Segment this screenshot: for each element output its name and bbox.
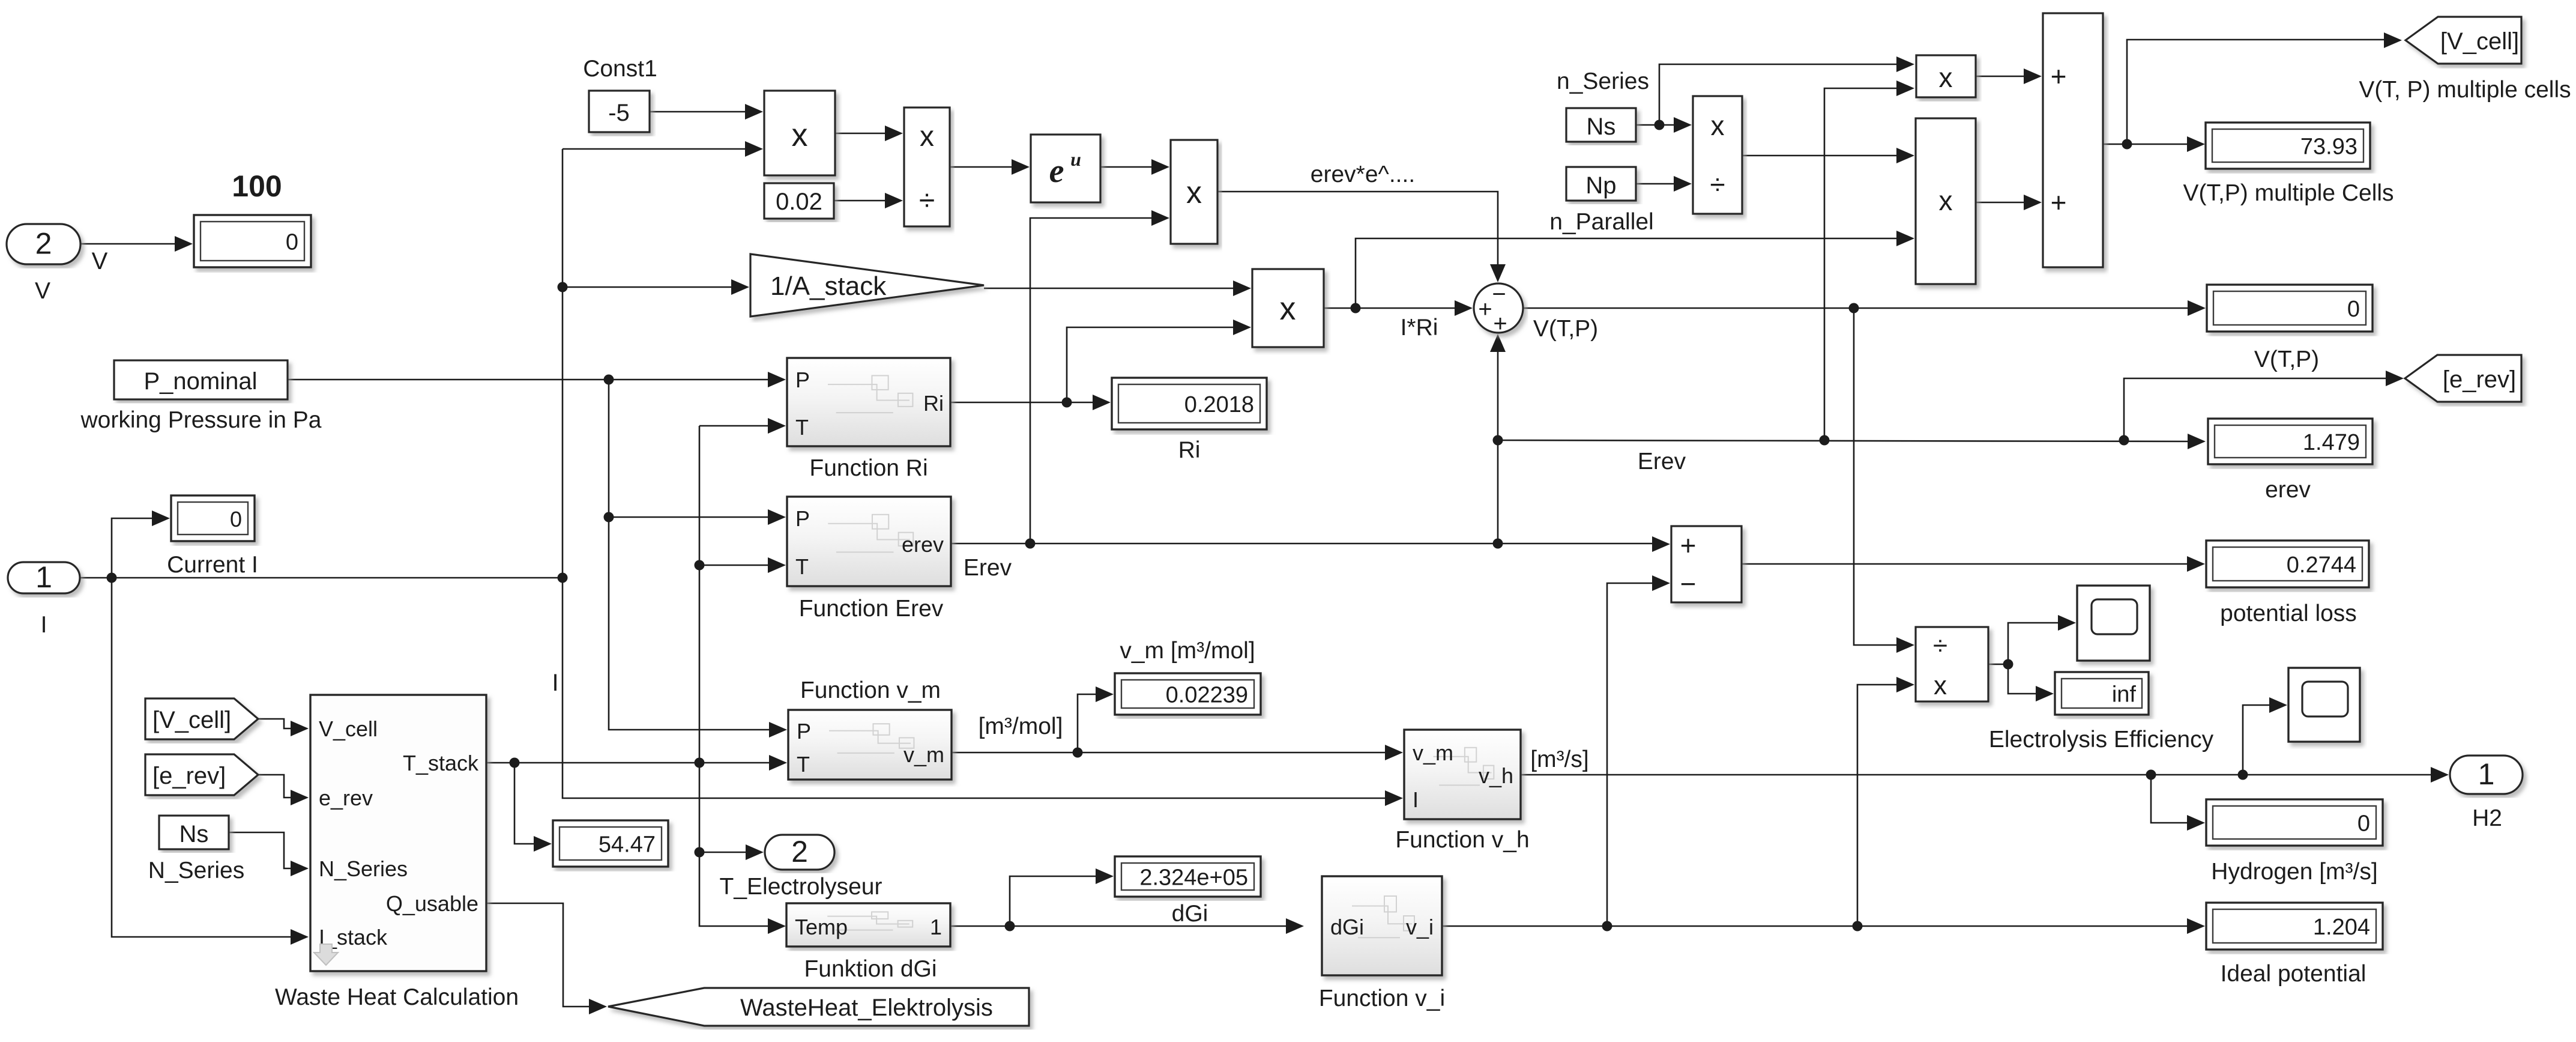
signal label m3/s	[1530, 747, 1588, 772]
arrowhead into product3x small lower input	[1896, 80, 1914, 96]
display potential loss 0.2744	[2206, 541, 2369, 587]
signal label m3/mol	[979, 713, 1063, 739]
wire H2 branch down to display	[2151, 775, 2188, 823]
subtract block	[1671, 526, 1742, 602]
subsystem Function v_h	[1404, 730, 1521, 819]
svg-text:0: 0	[286, 230, 298, 255]
arrowhead into sum2 upper input	[2024, 68, 2042, 84]
wire divide to exp	[950, 166, 1013, 168]
wire H2 branch up to scope	[2243, 705, 2270, 775]
arrowhead into WasteHeat goto	[589, 999, 607, 1014]
svg-text:x: x	[792, 117, 808, 153]
label H2	[2472, 805, 2502, 831]
wire dGi out	[950, 925, 1287, 927]
signal label I	[552, 670, 558, 696]
arrowhead into I_stack port	[291, 929, 309, 945]
svg-text:Function v_h: Function v_h	[1395, 827, 1529, 853]
svg-text:Current I: Current I	[167, 552, 258, 578]
wire Erev out	[951, 543, 1653, 545]
wire I*Ri to sum	[1324, 307, 1456, 309]
wire ratio out	[1742, 155, 1898, 157]
svg-text:Ns: Ns	[1587, 114, 1616, 140]
wire v_h out H2	[1521, 774, 2432, 776]
wire T_stack out	[484, 762, 769, 764]
svg-text:Function Erev: Function Erev	[799, 596, 944, 622]
display V(T,P)	[2207, 285, 2372, 332]
label Current I	[167, 552, 258, 578]
svg-text:P: P	[795, 368, 810, 392]
junction I gain branch	[558, 282, 568, 292]
arrowhead into divide div input	[885, 193, 903, 208]
junction I*Ri out	[1351, 303, 1361, 314]
label V under inport	[35, 278, 50, 304]
arrowhead into erev display	[2188, 434, 2206, 449]
svg-text:v_h: v_h	[1479, 763, 1513, 788]
svg-text:N_Series: N_Series	[319, 856, 408, 881]
arrowhead into T_Electrolyseur outport	[746, 844, 764, 860]
signal label V(T,P)	[1533, 316, 1598, 342]
junction sum2 out	[2122, 139, 2132, 150]
arrowhead into divide x input	[885, 126, 903, 141]
label V(T,P) display	[2254, 347, 2319, 372]
svg-text:−: −	[1492, 281, 1506, 307]
svg-text:0: 0	[2357, 811, 2370, 837]
svg-text:0.02: 0.02	[776, 189, 822, 215]
wire Ri out	[950, 402, 1094, 404]
scope2 hydrogen	[2288, 668, 2360, 742]
arrowhead into Funktion dGi Temp	[768, 918, 786, 934]
junction Erev smallx branch	[1820, 435, 1830, 446]
wire Erev branch to e_rev goto	[2124, 378, 2387, 440]
svg-text:1.204: 1.204	[2313, 915, 2370, 940]
const Ns	[1566, 108, 1636, 142]
wire v_m branch to display	[1078, 694, 1097, 753]
svg-text:0.2744: 0.2744	[2287, 553, 2356, 578]
wire potential loss	[1742, 563, 2188, 565]
svg-text:V(T,P) multiple Cells: V(T,P) multiple Cells	[2183, 180, 2394, 206]
svg-text:u: u	[1070, 148, 1081, 170]
arrowhead into e_rev goto	[2386, 371, 2404, 386]
signal label Erev near block	[964, 555, 1012, 581]
svg-text:dGi: dGi	[1330, 915, 1364, 939]
const Const1 -5	[589, 91, 650, 132]
svg-text:T_Electrolyseur: T_Electrolyseur	[720, 874, 882, 900]
label V(T,P) multiple Cells	[2183, 180, 2394, 206]
svg-text:P: P	[797, 719, 811, 744]
svg-text:[V_cell]: [V_cell]	[152, 707, 231, 733]
outport 1 H2	[2450, 756, 2523, 794]
label n_Series	[1557, 68, 1649, 94]
arrowhead into e^u	[1012, 159, 1030, 175]
block P_nominal	[114, 360, 288, 399]
display block 100 value	[194, 215, 311, 267]
gain 1/A_stack	[750, 254, 984, 317]
svg-text:2: 2	[791, 835, 808, 868]
label working Pressure in Pa	[80, 407, 321, 433]
svg-text:[e_rev]: [e_rev]	[2443, 366, 2516, 393]
svg-text:0: 0	[230, 507, 242, 532]
wire 0.02 to divide	[834, 200, 886, 202]
svg-text:1: 1	[930, 915, 942, 939]
svg-text:V(T, P) multiple cells: V(T, P) multiple cells	[2359, 77, 2571, 103]
arrowhead into Current I display	[152, 510, 170, 526]
goto WasteHeat_Elektrolysis	[608, 988, 1029, 1026]
block e^u exponential	[1031, 135, 1100, 202]
svg-text:Function Ri: Function Ri	[809, 455, 928, 481]
subsystem Function v_i	[1322, 876, 1442, 975]
svg-text:[m³/s]: [m³/s]	[1530, 747, 1588, 772]
svg-text:e: e	[1049, 153, 1064, 190]
svg-text:[V_cell]: [V_cell]	[2440, 28, 2519, 55]
label N_Series	[148, 858, 244, 883]
product X const1*I	[764, 91, 835, 175]
svg-text:Electrolysis Efficiency: Electrolysis Efficiency	[1989, 727, 2214, 753]
arrowhead into product X lower input	[745, 141, 763, 157]
wire Ns to N_Series port	[229, 832, 292, 868]
arrowhead into Function v_h I port	[1385, 790, 1403, 806]
svg-text:Ideal potential: Ideal potential	[2221, 961, 2366, 987]
wire I to product top branch	[563, 148, 746, 150]
svg-text:100: 100	[232, 169, 282, 203]
arrowhead into Function v_i	[1286, 918, 1304, 934]
label Funktion dGi	[804, 956, 937, 982]
label Waste Heat Calculation	[275, 984, 519, 1010]
junction dGi	[1005, 921, 1015, 931]
wire V_cell from-tag	[258, 719, 292, 728]
svg-text:x: x	[920, 121, 934, 153]
wire Np out	[1636, 183, 1675, 185]
svg-text:Temp: Temp	[795, 915, 848, 939]
label Hydrogen m3/s	[2211, 859, 2377, 885]
arrowhead into ratio div input	[1674, 176, 1692, 192]
svg-text:0: 0	[2347, 297, 2360, 322]
svg-text:v_m [m³/mol]: v_m [m³/mol]	[1120, 638, 1255, 664]
svg-text:v_m: v_m	[903, 742, 944, 767]
junction T outport branch	[695, 847, 705, 858]
label Function v_m	[800, 677, 941, 703]
wire T to outport 2	[699, 852, 747, 853]
label Function v_h	[1395, 827, 1529, 853]
junction v_i efficiency branch	[1853, 921, 1863, 931]
svg-text:erev: erev	[2265, 477, 2311, 503]
wire v_m out	[952, 752, 1386, 754]
wire v_i branch to efficiency x	[1857, 685, 1898, 926]
const Np	[1566, 167, 1636, 201]
wire I vertical trunk	[563, 149, 1386, 798]
wire I branch to gain	[563, 286, 732, 288]
arrowhead into H2 outport	[2431, 767, 2449, 783]
wire erev branch up to product2	[1030, 218, 1153, 544]
display 54.47	[553, 820, 668, 867]
svg-text:erev*e^....: erev*e^....	[1311, 162, 1415, 187]
wire P branch to Function Erev P	[609, 516, 769, 518]
display v_m 0.02239	[1115, 673, 1261, 715]
display inf	[2055, 672, 2149, 715]
svg-text:[e_rev]: [e_rev]	[152, 763, 226, 789]
arrowhead into sum bottom	[1490, 334, 1506, 352]
svg-text:I: I	[41, 612, 47, 638]
svg-text:n_Series: n_Series	[1557, 68, 1649, 94]
svg-text:x: x	[1280, 291, 1296, 327]
svg-text:÷: ÷	[1710, 169, 1725, 200]
annotation 100	[232, 169, 282, 203]
arrowhead into Function Erev P	[768, 509, 786, 525]
junction V(T,P)	[1849, 303, 1859, 314]
arrowhead into Function Ri P	[768, 372, 786, 387]
svg-text:v_m: v_m	[1413, 741, 1453, 765]
svg-text:+: +	[2051, 61, 2067, 92]
arrowhead into sum2 lower input	[2024, 195, 2042, 210]
svg-text:Ri: Ri	[1178, 437, 1201, 463]
wire P vertical branch	[609, 380, 769, 730]
junction P Erev branch	[604, 512, 614, 523]
junction T Erev branch	[695, 560, 705, 571]
svg-text:Np: Np	[1585, 172, 1616, 199]
svg-text:Erev: Erev	[1638, 449, 1686, 474]
label T_Electrolyseur	[720, 874, 882, 900]
svg-text:x: x	[1939, 185, 1953, 216]
junction T at x1165	[695, 758, 705, 768]
svg-text:0.02239: 0.02239	[1166, 683, 1248, 708]
svg-text:÷: ÷	[1933, 631, 1947, 661]
product tall	[1916, 118, 1976, 284]
arrowhead into 0.2744 display	[2187, 556, 2205, 572]
arrowhead into Ri display	[1093, 395, 1111, 410]
arrowhead into V(T,P) display	[2188, 300, 2206, 316]
arrowhead into ratio x input	[1674, 117, 1692, 133]
svg-text:n_Parallel: n_Parallel	[1549, 209, 1653, 235]
junction v_m	[1073, 748, 1083, 758]
wire sum2 out	[2103, 144, 2188, 145]
arrowhead into product I*Ri upper input	[1233, 280, 1251, 296]
svg-text:V(T,P): V(T,P)	[2254, 347, 2319, 372]
arrowhead into subtract minus input	[1652, 575, 1670, 591]
junction P at x1014	[604, 375, 614, 385]
wire Q_usable to goto	[484, 903, 590, 1007]
arrowhead into e_rev port	[291, 790, 309, 805]
arrowhead into 73.93 display	[2187, 136, 2205, 152]
svg-text:Q_usable: Q_usable	[386, 891, 478, 916]
svg-text:Ri: Ri	[923, 391, 944, 416]
goto e_rev	[2405, 355, 2521, 402]
svg-text:2: 2	[35, 227, 52, 261]
wire efficiency branch to scope	[2008, 623, 2059, 664]
wire tall product out	[1976, 202, 2025, 204]
wire Erev branch up to product3 top	[1824, 88, 1898, 440]
subsystem badge arrow	[314, 944, 338, 965]
arrowhead into inf display	[2036, 686, 2054, 701]
svg-text:potential loss: potential loss	[2220, 601, 2357, 626]
product X2 erev*exp	[1171, 140, 1217, 244]
svg-text:Hydrogen [m³/s]: Hydrogen [m³/s]	[2211, 859, 2377, 885]
wire erev*e to sum top	[1217, 192, 1498, 265]
svg-text:1/A_stack: 1/A_stack	[770, 271, 887, 301]
wire Erev vertical to sum bottom	[1497, 351, 1499, 544]
svg-text:−: −	[1680, 568, 1697, 599]
junction Ri out	[1062, 398, 1072, 408]
efficiency divide block	[1916, 627, 1988, 701]
from tag e_rev	[145, 754, 258, 795]
wire I from inport 1	[80, 577, 563, 579]
inport 2 V	[7, 224, 80, 264]
wire I*Ri branch up to product3	[1356, 238, 1898, 308]
arrowhead into efficiency divide input	[1896, 637, 1914, 653]
arrowhead into V_cell port	[291, 721, 309, 736]
svg-text:+: +	[1493, 310, 1507, 337]
svg-text:e_rev: e_rev	[319, 786, 373, 810]
svg-text:Function v_m: Function v_m	[800, 677, 941, 703]
arrowhead into Function v_m T	[769, 755, 787, 771]
svg-text:x: x	[1711, 110, 1725, 141]
junction H2 display branch	[2146, 770, 2156, 780]
wire V inport to display	[80, 243, 178, 245]
outport 2 T_Electrolyseur	[765, 835, 834, 870]
svg-text:inf: inf	[2112, 682, 2137, 707]
svg-text:0.2018: 0.2018	[1184, 392, 1254, 417]
svg-text:1: 1	[35, 560, 52, 594]
arrowhead into subtract plus input	[1652, 536, 1670, 552]
svg-text:v_i: v_i	[1406, 915, 1434, 939]
wire T to Function Ri T	[699, 425, 769, 427]
svg-text:+: +	[2051, 187, 2067, 218]
label V(T,P) multiple cells goto	[2359, 77, 2571, 103]
arrowhead into product3 lower input	[1896, 231, 1914, 246]
arrowhead into product3 upper input	[1896, 148, 1914, 163]
svg-text:I*Ri: I*Ri	[1401, 315, 1438, 341]
wire small product out	[1976, 76, 2025, 77]
label Function Erev	[799, 596, 944, 622]
display dGi 2.324e+05	[1115, 856, 1261, 897]
sum circle V(T,P)	[1474, 281, 1523, 337]
sum2 block	[2043, 13, 2103, 267]
label Ideal potential	[2221, 961, 2366, 987]
junction v_i subtract branch	[1602, 921, 1612, 931]
label Ri under display	[1178, 437, 1201, 463]
svg-text:x: x	[1186, 175, 1202, 210]
svg-text:[m³/mol]: [m³/mol]	[979, 713, 1063, 739]
display erev 1.479	[2208, 419, 2372, 464]
wire v_i branch to subtract minus	[1607, 583, 1653, 926]
wire sum2 branch to V_cell goto	[2127, 40, 2385, 144]
from tag V_cell	[145, 698, 258, 739]
arrowhead into product I*Ri lower input	[1233, 320, 1251, 335]
product small Ns*erev	[1916, 55, 1976, 97]
junction efficiency out	[2003, 659, 2013, 670]
signal label erev*e	[1311, 162, 1415, 187]
goto V_cell	[2406, 17, 2521, 64]
label Const1	[583, 56, 657, 82]
subsystem Function Ri	[787, 358, 950, 446]
arrowhead into efficiency x input	[1896, 677, 1914, 692]
svg-text:T_stack: T_stack	[403, 751, 479, 775]
display Ideal potential 1.204	[2206, 903, 2383, 950]
svg-text:Waste Heat Calculation: Waste Heat Calculation	[275, 984, 519, 1010]
svg-text:working Pressure in Pa: working Pressure in Pa	[80, 407, 321, 433]
svg-text:+: +	[1680, 530, 1697, 561]
svg-text:x: x	[1934, 671, 1947, 700]
arrowhead into 54.47 display	[534, 836, 552, 852]
wire Ns branch up	[1659, 64, 1898, 125]
wire I branch down to I_stack	[112, 578, 292, 937]
svg-text:1.479: 1.479	[2303, 430, 2360, 455]
junction Erev upper	[1493, 435, 1503, 446]
wire T branch down to 54.47 display	[514, 763, 535, 844]
junction I at x937	[558, 573, 568, 583]
wire T vertical trunk	[699, 426, 769, 926]
wire Const1 -5 to product	[650, 111, 746, 113]
divide Ns/Np	[1693, 96, 1742, 214]
wire Ri branch to product I*Ri	[1067, 327, 1234, 402]
junction Erev goto branch	[2119, 435, 2129, 446]
scope1 Electrolysis Efficiency	[2077, 586, 2150, 661]
svg-text:-5: -5	[608, 100, 630, 126]
svg-text:73.93: 73.93	[2300, 135, 2357, 160]
signal label Erev mid	[1638, 449, 1686, 474]
inport 1 I	[8, 560, 80, 594]
svg-text:T: T	[795, 415, 809, 440]
arrowhead into 2.324e+05 display	[1096, 868, 1114, 884]
wire efficiency out	[1988, 664, 2008, 665]
label I under inport	[41, 612, 47, 638]
wire T to Function Erev T	[699, 565, 769, 566]
arrowhead into sum top	[1490, 264, 1506, 282]
label Function Ri	[809, 455, 928, 481]
subsystem Funktion dGi	[786, 903, 950, 947]
svg-text:Funktion dGi: Funktion dGi	[804, 956, 937, 982]
arrowhead into gain 1/A_stack	[731, 279, 749, 295]
subsystem Function Erev	[787, 497, 951, 586]
display Current I	[171, 495, 255, 541]
display Ri 0.2018	[1112, 378, 1267, 429]
display Hydrogen	[2206, 799, 2383, 846]
svg-text:÷: ÷	[919, 185, 935, 217]
arrowhead into product2 lower input	[1151, 210, 1169, 226]
junction Erev out	[1025, 539, 1036, 549]
svg-text:T: T	[795, 554, 809, 579]
svg-text:T: T	[797, 752, 810, 777]
svg-text:Ns: Ns	[179, 821, 209, 847]
arrowhead into Function Ri T	[768, 418, 786, 434]
svg-text:I: I	[1413, 787, 1419, 812]
svg-text:V_cell: V_cell	[319, 716, 378, 741]
arrowhead into Function Erev T	[768, 557, 786, 573]
label n_Parallel	[1549, 209, 1653, 235]
const 0.02	[764, 183, 834, 219]
signal label I*Ri	[1401, 315, 1438, 341]
display 73.93	[2206, 123, 2370, 169]
label potential loss	[2220, 601, 2357, 626]
label dGi	[1172, 901, 1208, 927]
wire efficiency branch to inf display	[2008, 664, 2037, 694]
wire product X to divide	[835, 133, 886, 135]
arrowhead into scope1	[2058, 615, 2076, 631]
wire I branch up to Current display	[112, 518, 154, 578]
label v_m m3/mol	[1120, 638, 1255, 664]
divide block	[904, 108, 950, 226]
svg-text:H2: H2	[2472, 805, 2502, 831]
label Electrolysis Efficiency	[1989, 727, 2214, 753]
arrowhead into product2 upper input	[1151, 159, 1169, 175]
arrowhead into V_cell goto	[2384, 32, 2402, 48]
junction H2 scope branch	[2238, 770, 2248, 780]
arrowhead into product X upper input	[745, 104, 763, 120]
wire Ns out	[1636, 124, 1675, 126]
subsystem Function v_m	[788, 710, 952, 780]
wire e_rev from-tag	[258, 775, 292, 798]
svg-text:V(T,P): V(T,P)	[1533, 316, 1598, 342]
signal label V	[92, 248, 108, 274]
arrowhead into scope2	[2269, 697, 2287, 713]
